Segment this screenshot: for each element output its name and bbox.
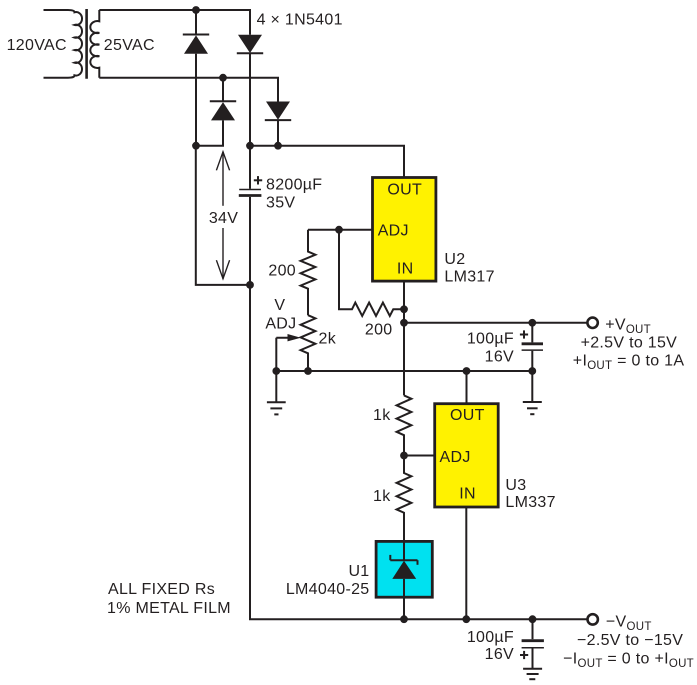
wire secondary top lead to D2 [99, 10, 250, 35]
ground symbol under C2 [523, 371, 542, 414]
svg-text:25VAC: 25VAC [104, 37, 155, 54]
wire D4 cathode down [277, 120, 279, 146]
resistor R3 1k [397, 395, 412, 455]
label U2 LM317 [444, 251, 494, 286]
node D1/D3 anode junction [192, 142, 200, 150]
value label 100uF 16V [467, 331, 514, 366]
terminal +VOUT [587, 318, 597, 328]
capacitor C2 100uF [522, 323, 543, 371]
svg-text:200: 200 [365, 321, 393, 338]
wire D2 cathode down [249, 53, 251, 145]
svg-text:U3: U3 [505, 477, 526, 494]
svg-text:8200µF: 8200µF [266, 177, 322, 194]
svg-text:1k: 1k [373, 407, 391, 424]
svg-text:200: 200 [268, 262, 296, 279]
diode D1 [183, 10, 209, 54]
node junction top rail [192, 6, 200, 14]
diode D2 [237, 35, 263, 54]
diode D3 [210, 78, 236, 121]
34V dimension arrow [216, 152, 229, 279]
svg-text:100µF: 100µF [467, 331, 514, 348]
svg-text:U1: U1 [348, 563, 369, 580]
wire positive node rail to U2 [250, 146, 404, 178]
svg-text:120VAC: 120VAC [7, 37, 67, 54]
pot wiper arrow [276, 334, 301, 341]
svg-text:−2.5V to −15V: −2.5V to −15V [577, 632, 683, 649]
label -VOUT block [563, 614, 694, 670]
transformer T1 secondary winding [90, 10, 99, 78]
wire negative bus down to -V rail [250, 285, 588, 619]
svg-text:OUT: OUT [450, 407, 485, 424]
ground symbol left [267, 371, 286, 414]
wire U3 IN down [465, 507, 467, 619]
resistor R2 200 horizontal [339, 230, 404, 316]
svg-text:ADJ: ADJ [440, 449, 471, 466]
op-amp U3 regulator LM337 [435, 404, 499, 507]
wire wiper down to ground rail [275, 338, 277, 371]
node junction D4 cathode [274, 142, 282, 150]
transformer T1 core [85, 9, 88, 79]
op-amp U2 regulator LM317 [373, 178, 436, 282]
wire U2 ADJ [308, 229, 373, 231]
capacitor C3 100uF [522, 619, 544, 668]
node negative bus junction [246, 281, 254, 289]
svg-text:IN: IN [459, 486, 476, 503]
ground rail [276, 370, 532, 372]
svg-text:1k: 1k [373, 488, 391, 505]
resistor R4 1k [397, 456, 412, 542]
svg-text:ADJ: ADJ [378, 223, 409, 240]
plus sign C1 [254, 176, 262, 184]
transformer T1 primary winding [44, 10, 83, 78]
diode D4 [265, 102, 291, 121]
wire secondary bottom lead to D4 [99, 78, 278, 102]
wire U2 IN down through junctions [403, 281, 405, 395]
plus sign C3 [520, 651, 528, 659]
node C3 top junction [529, 615, 537, 623]
svg-text:IN: IN [397, 260, 414, 277]
node ADJ junction [335, 226, 343, 234]
wire +V output rail [404, 322, 587, 324]
node junction C1 top [246, 142, 254, 150]
svg-text:+2.5V to 15V: +2.5V to 15V [581, 334, 678, 351]
svg-text:LM317: LM317 [444, 268, 494, 285]
label U1 LM4040-25 [286, 563, 370, 598]
svg-text:100µF: 100µF [467, 629, 514, 646]
note ALL FIXED Rs 1% METAL FILM [107, 581, 231, 617]
svg-text:34V: 34V [209, 210, 238, 227]
svg-text:35V: 35V [266, 195, 295, 212]
potentiometer 2k [301, 315, 316, 371]
capacitor C1 8200uF [239, 146, 262, 285]
svg-text:2k: 2k [319, 330, 337, 347]
node U3 OUT junction [463, 367, 471, 375]
node U1 bottom junction [400, 615, 408, 623]
wire D3 anode down to join D1 [196, 120, 223, 145]
node R2 junction [400, 305, 408, 313]
node C2 bottom junction [528, 367, 536, 375]
svg-text:LM337: LM337 [505, 494, 555, 511]
svg-text:OUT: OUT [387, 182, 422, 199]
value label 8200uF 35V [266, 177, 322, 212]
shunt reference U1 LM4040-25 [376, 541, 432, 597]
svg-text:V: V [274, 297, 285, 314]
svg-text:LM4040-25: LM4040-25 [286, 581, 370, 598]
value label 100uF 16V [467, 629, 514, 663]
wire negative loop down and right [196, 146, 250, 285]
node wiper ground junction [272, 367, 280, 375]
wire U3 OUT [466, 371, 468, 404]
label U3 LM337 [505, 477, 555, 511]
svg-text:4 × 1N5401: 4 × 1N5401 [257, 11, 343, 28]
svg-text:U2: U2 [444, 251, 465, 268]
node pot bottom junction [304, 367, 312, 375]
node U3 IN bottom junction [462, 615, 470, 623]
label V ADJ [265, 297, 296, 333]
svg-text:ALL FIXED Rs: ALL FIXED Rs [108, 581, 215, 598]
label +VOUT block [573, 317, 685, 372]
svg-text:16V: 16V [485, 349, 514, 366]
zener diode inside U1 [390, 541, 417, 619]
svg-text:1% METAL FILM: 1% METAL FILM [107, 600, 231, 617]
ground symbol under C3 [523, 669, 542, 680]
node +V junction [400, 319, 408, 327]
node R3/R4 ADJ junction [400, 452, 408, 460]
resistor R1 200 [301, 230, 316, 316]
node C2 top junction [528, 319, 536, 327]
svg-text:16V: 16V [485, 646, 514, 663]
plus sign C2 [520, 330, 528, 338]
terminal -VOUT [588, 614, 598, 624]
node junction bottom secondary lead [219, 74, 227, 82]
wire D1 anode down [195, 54, 197, 146]
wire U3 ADJ [404, 455, 435, 457]
svg-text:ADJ: ADJ [265, 316, 296, 333]
